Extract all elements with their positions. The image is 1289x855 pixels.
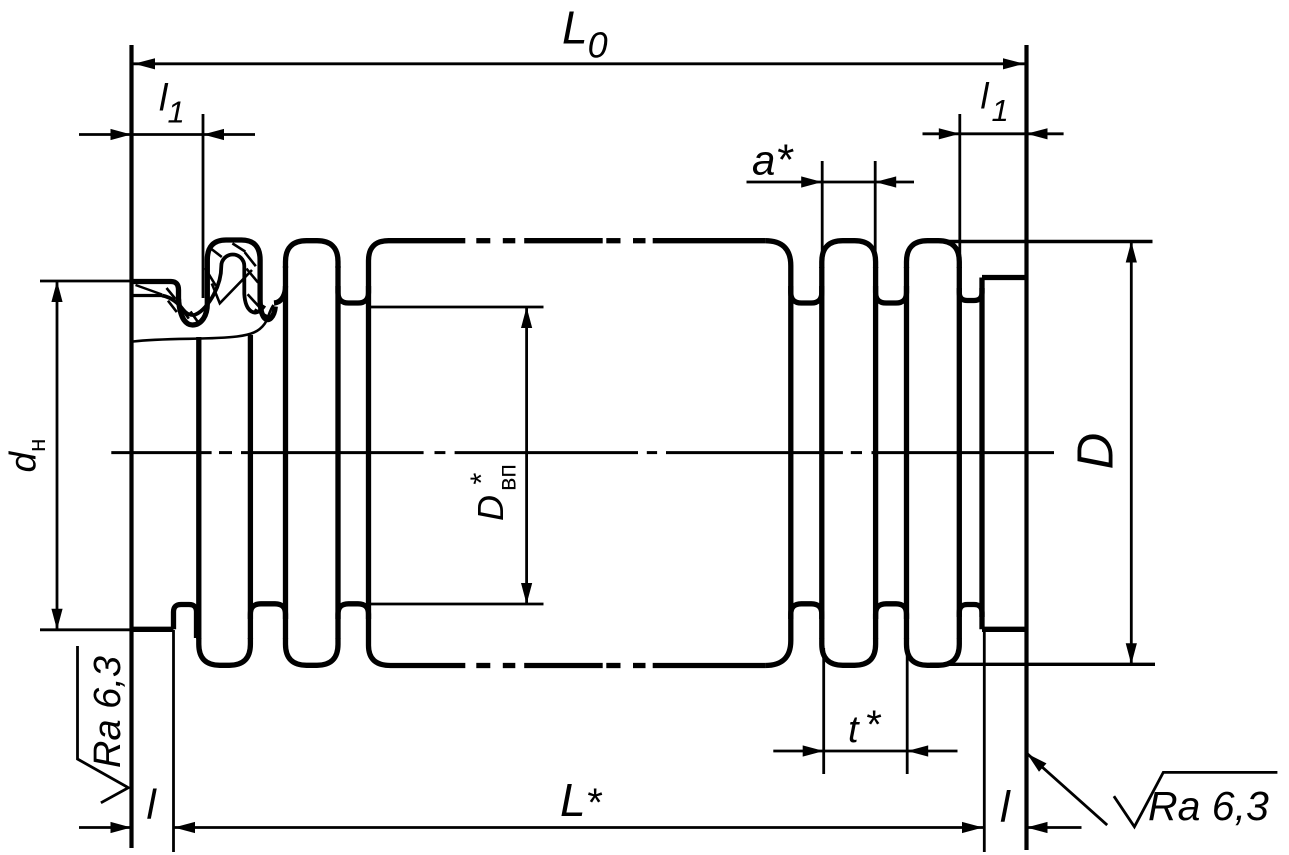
bottom root arc collar-conv1 <box>174 605 197 639</box>
bottom root arc convA-convB <box>791 604 822 619</box>
dimension l1 right extension line <box>958 114 961 267</box>
convolution C top crest arc <box>907 241 960 268</box>
arrowheads l left and L* <box>111 822 132 833</box>
bottom crest arc conv2 <box>286 638 339 665</box>
right collar bottom surface <box>982 627 1027 632</box>
bottom root arc convC-collar <box>959 605 982 618</box>
svg-text:D: D <box>1067 433 1124 470</box>
right collar left face edge <box>979 278 984 630</box>
dimension t* extension lines <box>822 648 825 774</box>
arrowheads L0 <box>134 58 155 69</box>
convolution A right flank with corners <box>765 241 791 666</box>
axis centerline <box>111 451 211 454</box>
dimension d_n line <box>56 281 59 630</box>
convolution 1 right flank silhouette <box>248 335 253 639</box>
convolution C right flank <box>957 267 962 639</box>
surface roughness symbol right <box>1114 772 1278 826</box>
top root arc conv2-conv3 <box>338 286 369 303</box>
bottom straight outline segments with break dashes <box>391 663 466 668</box>
dimension L0 line <box>132 62 1027 65</box>
top root arc convA-convB <box>791 286 822 303</box>
convolution 3 left flank with corners <box>369 241 391 666</box>
dimension D_vp extension lines <box>371 306 544 309</box>
top root arc conv1-conv2 <box>274 286 286 303</box>
dimension D extension lines <box>945 240 1153 243</box>
convolution 2 top crest arc <box>286 241 339 268</box>
dimension L* line <box>174 826 983 829</box>
crest bore hidden-edge polyline <box>212 270 252 303</box>
bottom crest arc conv1 <box>199 638 251 665</box>
convolution 2 left flank <box>283 266 288 639</box>
dimension l1 right line <box>923 132 1064 135</box>
convolution C left flank <box>904 267 909 639</box>
left collar bottom surface <box>132 627 174 632</box>
section wall inner surface curve <box>162 255 265 315</box>
top root arc convC-collar <box>959 288 982 301</box>
svg-text:t*: t* <box>848 703 882 751</box>
bottom root arc conv1-conv2 <box>250 604 285 619</box>
dimension l1 left line <box>79 133 255 136</box>
left collar chamfer diagonal <box>136 285 163 295</box>
svg-text:Ra 6,3: Ra 6,3 <box>1148 783 1269 829</box>
top root arc convB-convC <box>876 286 907 303</box>
bottom root arc conv2-conv3 <box>338 604 369 619</box>
right end face line <box>1024 45 1028 850</box>
bottom crest arc convB <box>822 638 876 665</box>
dimension a* extension lines <box>821 161 824 254</box>
arrowheads D_vp <box>521 307 532 328</box>
convolution 2 right flank <box>335 266 340 639</box>
bottom dimension extension lines <box>172 630 175 852</box>
dimension d_n extension lines <box>40 280 132 283</box>
right collar top surface <box>982 275 1027 280</box>
section hatching <box>167 288 176 299</box>
left collar top surface <box>132 282 179 302</box>
dimension l right line <box>1027 826 1082 829</box>
svg-text:L*: L* <box>560 774 603 826</box>
dimension a* line <box>747 181 915 184</box>
top straight outline segments with break dashes <box>389 238 466 243</box>
dimension l left line <box>79 826 132 829</box>
roughness leader line right <box>1027 754 1107 826</box>
convolution B top crest arc <box>822 241 876 268</box>
arrowheads l1 right <box>939 128 960 139</box>
left collar inner lower edge <box>132 294 162 297</box>
arrowheads D <box>1126 242 1137 263</box>
arrowheads d_n <box>51 281 62 302</box>
section wall outer surface curve <box>179 240 276 325</box>
dimension D_vp line <box>525 307 528 604</box>
convolution B left flank <box>819 267 824 639</box>
bottom root arc convB-convC <box>876 604 907 619</box>
broken-out section wavy boundary <box>133 305 274 342</box>
left end face line <box>129 45 133 848</box>
convolution 1 left flank silhouette <box>196 337 201 639</box>
arrowheads t* <box>803 745 824 756</box>
dimension l1 left extension line <box>202 114 205 298</box>
svg-text:l: l <box>1000 783 1011 832</box>
surface roughness symbol left <box>78 646 129 803</box>
arrowheads l1 left <box>111 129 132 140</box>
convolution B right flank <box>873 267 878 639</box>
arrowheads a* <box>801 176 822 187</box>
dimension t* line <box>773 750 957 753</box>
svg-text:a*: a* <box>752 136 794 185</box>
dimension D line <box>1130 242 1133 665</box>
svg-text:Ra 6,3: Ra 6,3 <box>87 656 129 768</box>
arrowhead roughness leader <box>1027 754 1046 772</box>
bottom crest arc convC <box>907 638 960 665</box>
